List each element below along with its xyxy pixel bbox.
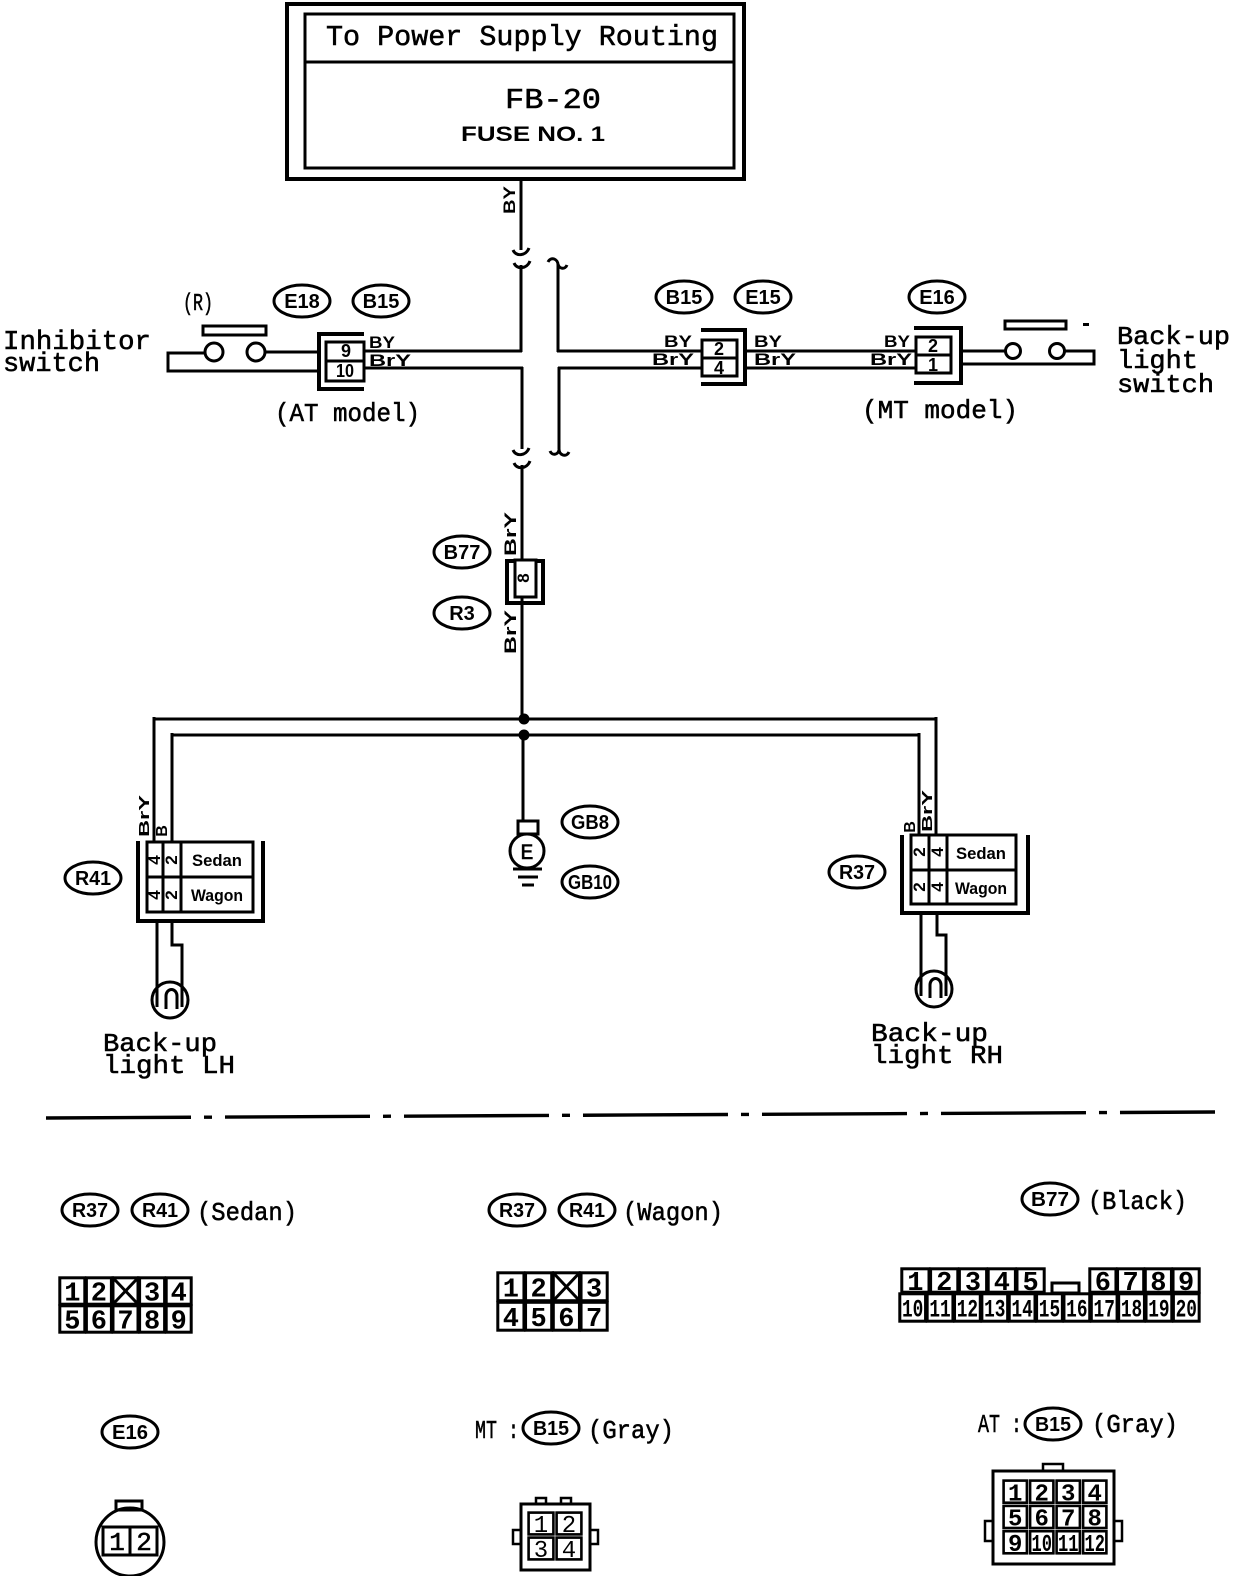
svg-text:B15: B15 xyxy=(1035,1414,1071,1436)
svg-text:Sedan: Sedan xyxy=(956,844,1006,863)
wire B drop right xyxy=(918,733,921,836)
svg-text:FB-20: FB-20 xyxy=(505,84,601,117)
back-up light RH bulb xyxy=(916,971,952,1007)
connector AT bracket xyxy=(319,334,364,389)
svg-text:switch: switch xyxy=(3,350,100,380)
svg-text:FUSE NO. 1: FUSE NO. 1 xyxy=(461,123,605,146)
inhibitor switch bar xyxy=(203,326,266,335)
svg-text:B: B xyxy=(154,825,171,837)
svg-text:BrY: BrY xyxy=(501,511,520,556)
svg-text:R37: R37 xyxy=(839,862,875,884)
svg-text:4: 4 xyxy=(1088,1481,1102,1508)
label B15 AT xyxy=(1025,1408,1081,1440)
connector label R3 xyxy=(434,597,490,629)
junction dot upper xyxy=(519,714,530,725)
connector face B77 bottom xyxy=(900,1294,926,1321)
svg-text:10: 10 xyxy=(1032,1532,1053,1559)
svg-text:R41: R41 xyxy=(142,1200,178,1222)
svg-text:(MT model): (MT model) xyxy=(862,396,1018,426)
svg-text:4: 4 xyxy=(714,358,724,378)
svg-text:1: 1 xyxy=(534,1513,548,1540)
svg-text:1: 1 xyxy=(109,1528,125,1558)
svg-text:(R): (R) xyxy=(183,291,213,318)
svg-text:BrY: BrY xyxy=(136,795,153,837)
wire break hook lower right xyxy=(559,367,569,455)
svg-text:3: 3 xyxy=(534,1538,548,1565)
wire BrY to connector B77 xyxy=(521,465,524,561)
svg-text:10: 10 xyxy=(902,1296,923,1325)
svg-text:20: 20 xyxy=(1176,1296,1197,1325)
ground bar 1 xyxy=(513,868,542,871)
svg-text:E18: E18 xyxy=(284,291,320,313)
wire break hook upper right xyxy=(548,259,558,352)
svg-text:To Power Supply Routing: To Power Supply Routing xyxy=(326,21,718,54)
svg-text:E: E xyxy=(520,841,533,866)
svg-text:B: B xyxy=(902,821,919,833)
connector face B77 top left xyxy=(902,1269,929,1292)
svg-text:GB8: GB8 xyxy=(571,812,609,834)
svg-text:BrY: BrY xyxy=(870,350,913,369)
label R37 wagon xyxy=(489,1194,545,1226)
connector 2/4 bracket xyxy=(701,330,745,384)
svg-text:BY: BY xyxy=(754,332,783,351)
svg-text:2: 2 xyxy=(714,339,724,359)
svg-text:4: 4 xyxy=(928,847,947,857)
svg-text:BrY: BrY xyxy=(501,609,520,654)
svg-text:switch: switch xyxy=(1117,370,1214,400)
svg-text:5: 5 xyxy=(1008,1507,1022,1534)
connector R41 bracket xyxy=(138,841,263,921)
label B15 MT xyxy=(523,1412,579,1444)
wire to ground xyxy=(522,735,525,822)
wire BrY drop right xyxy=(935,717,938,836)
svg-text:BY: BY xyxy=(500,185,519,214)
connector 2/1 bracket xyxy=(914,328,961,383)
wire BrY drop left xyxy=(153,717,156,842)
ground terminal box xyxy=(518,821,538,834)
connector face MT B15 xyxy=(521,1504,590,1570)
svg-text:6: 6 xyxy=(91,1308,107,1338)
svg-text:12: 12 xyxy=(957,1296,978,1325)
svg-text:16: 16 xyxy=(1066,1296,1087,1325)
rail BrY xyxy=(154,718,936,721)
label R41 wagon xyxy=(559,1194,615,1226)
svg-text:2: 2 xyxy=(562,1513,576,1540)
ground circle E xyxy=(510,834,544,868)
connector face R37 R41 sedan xyxy=(60,1278,85,1304)
wire lamp R feed xyxy=(920,913,923,996)
label R37 sedan xyxy=(62,1194,118,1226)
wire BrY right branch xyxy=(558,367,703,370)
svg-text:B15: B15 xyxy=(533,1418,569,1440)
label B77 black xyxy=(1022,1183,1078,1215)
connector face B77 top right xyxy=(1090,1269,1116,1292)
svg-text:8: 8 xyxy=(514,573,533,582)
svg-text:2: 2 xyxy=(162,890,181,899)
svg-text:BrY: BrY xyxy=(754,350,797,369)
wire inhibitor switch stub xyxy=(168,353,319,371)
svg-text:3: 3 xyxy=(1061,1481,1075,1508)
connector face R37 R41 wagon xyxy=(498,1273,524,1301)
connector face E16 xyxy=(96,1508,164,1576)
wire BY to cross xyxy=(520,265,523,352)
svg-text:2: 2 xyxy=(910,882,929,891)
svg-text:1: 1 xyxy=(928,355,938,375)
svg-text:R37: R37 xyxy=(72,1200,108,1222)
svg-text:BY: BY xyxy=(664,332,693,351)
svg-text:light RH: light RH xyxy=(871,1041,1003,1071)
ground label GB8 xyxy=(562,806,618,838)
break symbol lower left xyxy=(513,448,529,455)
connector R37 bracket xyxy=(902,835,1028,913)
connector 2/4 pins box xyxy=(702,340,737,376)
backup switch bar xyxy=(1005,321,1066,329)
svg-text:5: 5 xyxy=(531,1305,547,1335)
wire lamp L return xyxy=(172,921,182,1007)
connector label R41 xyxy=(65,862,121,894)
svg-text:BrY: BrY xyxy=(369,351,412,370)
separator dash-dot line xyxy=(46,1112,1215,1118)
wire lamp R return xyxy=(937,913,946,996)
wire BrY left branch xyxy=(363,367,523,370)
svg-text:(Wagon): (Wagon) xyxy=(623,1198,723,1228)
svg-text:(Gray): (Gray) xyxy=(1092,1410,1178,1440)
backup switch contact left xyxy=(1006,344,1021,359)
svg-text:BrY: BrY xyxy=(652,350,695,369)
wire switch to connector AT xyxy=(265,351,319,354)
svg-text:2: 2 xyxy=(928,336,938,356)
svg-text:BY: BY xyxy=(884,332,911,351)
svg-text:9: 9 xyxy=(341,341,351,361)
svg-text:1: 1 xyxy=(1008,1481,1022,1508)
wire BY right branch xyxy=(557,350,703,353)
svg-text:B77: B77 xyxy=(444,542,481,564)
svg-text:2: 2 xyxy=(136,1528,152,1558)
svg-text:(Sedan): (Sedan) xyxy=(197,1198,297,1228)
svg-text:14: 14 xyxy=(1011,1296,1032,1325)
wire BrY down from cross xyxy=(521,367,524,449)
svg-text:9: 9 xyxy=(1008,1532,1022,1559)
svg-text:4: 4 xyxy=(562,1538,576,1565)
label R41 sedan xyxy=(132,1194,188,1226)
svg-text:Sedan: Sedan xyxy=(192,851,242,870)
connector face B77 latch xyxy=(1052,1283,1079,1293)
svg-text:B77: B77 xyxy=(1031,1189,1069,1211)
svg-text:6: 6 xyxy=(558,1305,574,1335)
connector label B77 xyxy=(434,536,490,568)
svg-text:2: 2 xyxy=(910,847,929,856)
svg-text:7: 7 xyxy=(117,1308,133,1338)
svg-text:4: 4 xyxy=(928,882,947,892)
wire to switch contact xyxy=(961,350,1005,353)
svg-text:2: 2 xyxy=(162,855,181,864)
svg-text:B15: B15 xyxy=(363,291,400,313)
svg-text:17: 17 xyxy=(1094,1296,1115,1325)
wire BY from fuse box xyxy=(520,179,523,250)
svg-text:BrY: BrY xyxy=(919,790,936,832)
svg-text:9: 9 xyxy=(171,1308,187,1338)
svg-text:4: 4 xyxy=(503,1305,519,1335)
break symbol upper left xyxy=(513,248,529,255)
power supply routing box xyxy=(287,4,744,179)
svg-text:15: 15 xyxy=(1039,1296,1060,1325)
svg-text:11: 11 xyxy=(929,1296,950,1325)
svg-text:8: 8 xyxy=(144,1308,160,1338)
svg-text:E16: E16 xyxy=(919,287,955,309)
svg-text:AT :: AT : xyxy=(978,1410,1022,1440)
svg-text:BY: BY xyxy=(369,333,396,352)
ground bar 3 xyxy=(522,884,534,887)
connector label E15 xyxy=(735,281,791,313)
svg-text:6: 6 xyxy=(1035,1507,1049,1534)
svg-text:7: 7 xyxy=(586,1305,602,1335)
svg-text:18: 18 xyxy=(1121,1296,1142,1325)
connector face AT B15 xyxy=(993,1471,1114,1564)
connector AT pins box xyxy=(326,342,364,381)
svg-text:12: 12 xyxy=(1085,1532,1106,1559)
backup switch contact right xyxy=(1050,344,1065,359)
wire lamp L feed xyxy=(156,921,159,1007)
rail B xyxy=(172,734,919,737)
svg-text:5: 5 xyxy=(64,1308,80,1338)
connector label R37 xyxy=(829,856,885,888)
svg-text:Wagon: Wagon xyxy=(191,886,243,905)
wire BY left branch xyxy=(363,350,522,353)
connector label B15 right xyxy=(656,281,712,313)
label E16 bottom xyxy=(102,1416,158,1448)
svg-text:2: 2 xyxy=(1035,1481,1049,1508)
svg-text:11: 11 xyxy=(1058,1532,1079,1559)
connector 2/1 pins box xyxy=(916,337,951,373)
ground bar 2 xyxy=(518,876,538,879)
svg-text:light LH: light LH xyxy=(103,1051,235,1081)
svg-text:GB10: GB10 xyxy=(568,872,612,894)
svg-text:E15: E15 xyxy=(745,287,781,309)
svg-text:B15: B15 xyxy=(666,287,703,309)
svg-text:8: 8 xyxy=(1088,1507,1102,1534)
ground label GB10 xyxy=(562,866,618,898)
svg-text:R3: R3 xyxy=(449,603,475,625)
svg-text:R41: R41 xyxy=(569,1200,605,1222)
junction dot lower xyxy=(519,730,530,741)
connector R41 grid xyxy=(147,842,253,912)
svg-text:Wagon: Wagon xyxy=(955,879,1007,898)
svg-text:7: 7 xyxy=(1061,1507,1075,1534)
svg-text:13: 13 xyxy=(984,1296,1005,1325)
svg-text:MT :: MT : xyxy=(475,1416,519,1446)
svg-text:(Black): (Black) xyxy=(1088,1187,1187,1217)
wire BrY below B77 xyxy=(521,597,524,717)
connector R37 grid xyxy=(911,835,1016,904)
svg-text:R41: R41 xyxy=(75,868,111,890)
svg-text:(Gray): (Gray) xyxy=(588,1416,674,1446)
inhibitor switch contact left xyxy=(205,343,223,361)
connector B77 bracket xyxy=(507,561,543,603)
svg-text:10: 10 xyxy=(336,361,354,381)
connector label E16 top xyxy=(909,281,965,313)
svg-text:19: 19 xyxy=(1148,1296,1169,1325)
wire B drop left xyxy=(171,733,174,842)
wire BY 2/4 to 2/1 xyxy=(747,350,916,353)
back-up light LH bulb xyxy=(152,982,188,1018)
svg-text:(AT model): (AT model) xyxy=(275,399,420,429)
connector B77 pin box xyxy=(515,560,536,597)
svg-text:E16: E16 xyxy=(112,1422,148,1444)
connector label E18 xyxy=(274,285,330,317)
wire BrY 2/4 to 2/1 xyxy=(747,367,916,370)
wire switch return xyxy=(961,351,1094,364)
small mark xyxy=(1083,323,1089,326)
svg-text:R37: R37 xyxy=(499,1200,535,1222)
connector label B15 left xyxy=(353,285,409,317)
inhibitor switch contact right xyxy=(247,343,265,361)
